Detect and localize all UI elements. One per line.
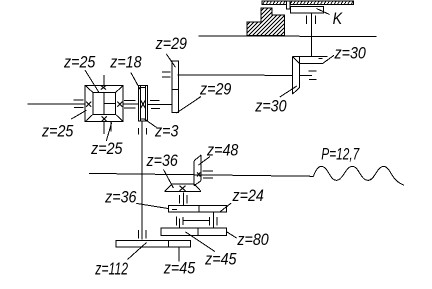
svg-text:z=36: z=36 [146,152,179,170]
wire shaft I left segment [28,103,85,105]
bearing on K shaft [307,16,316,25]
leader z=45 right [185,232,215,252]
frame hatched top strip [262,1,354,4]
leader z=25 bottom [106,123,111,141]
svg-text:z=112: z=112 [95,259,129,279]
leader z=18 [131,73,140,90]
bearing on shaft C upper [139,128,147,135]
bearing on shaft I right of worm [150,100,160,108]
leader z=30 upper (extends from gear slant) [323,55,334,63]
x-mark bottom gear z=25 [102,116,107,121]
wire shaft B between bars [212,213,214,228]
svg-text:z=3: z=3 [154,123,179,141]
leader z=29 lower [177,97,202,114]
x-mark on z=36 bevel [180,186,186,191]
wire vertical stubs below bevel box [104,122,111,135]
leader z=36 upper [164,170,174,189]
bearing on shaft A upper [180,195,188,203]
leader K [317,9,330,15]
bearing on shaft C lower [139,230,147,239]
coupling bracket between gear blocks [183,217,209,226]
bearing on shaft A mid [175,217,177,226]
leader z=80 [227,232,237,238]
frame datum line [199,35,377,38]
gear z=29 lower [172,89,179,112]
leader z=29 upper [166,54,175,68]
leader z=112 [128,243,147,260]
x-mark worm mesh [140,100,145,109]
bevel gear z=48 vertical (on shaft IV) [194,155,201,186]
plate K [291,7,324,13]
wire vertical shaft to K [310,13,312,57]
gear z=29 upper [172,61,179,89]
leader z=3 [145,119,157,128]
wire shaft I segment worm to gear [148,103,172,105]
svg-text:z=24: z=24 [232,187,265,205]
spring wave P=12,7 [313,166,404,185]
bearing on shaft I right of bevel box [124,100,136,108]
bevel gear z=36 horizontal (on vertical shaft A) [165,184,201,191]
svg-text:z=25: z=25 [90,140,123,158]
svg-text:z=29: z=29 [155,35,188,53]
bevel gear box z=25 x4 (differential housing) [85,86,123,122]
gear block bar z=36 / z=24 [169,205,227,212]
x-mark on z=48 [197,172,200,176]
svg-text:z=45: z=45 [204,251,237,269]
x-mark right gear z=25 [117,102,122,107]
gear bar z=112 / z=45 [116,240,191,247]
bearing on shaft I left of bevel box [73,100,83,108]
wire shaft A stub below z=45 [178,247,180,261]
wire shaft A to lower bar [178,219,180,228]
svg-text:z=29: z=29 [199,80,232,98]
bearing on shaft IV right of z=48 [202,171,213,178]
svg-text:z=45: z=45 [163,259,196,277]
leader z=36 lower [136,203,177,209]
frame hatched step block [247,8,285,36]
wire shaft A below bevel z=36 [182,193,184,206]
svg-text:z=25: z=25 [63,53,96,71]
wire shaft I middle segment [123,103,138,105]
svg-text:z=25: z=25 [41,123,74,141]
leader z=48 [199,157,211,166]
svg-text:z=48: z=48 [206,142,239,160]
svg-text:P=12,7: P=12,7 [321,146,360,164]
svg-text:z=18: z=18 [109,54,142,72]
svg-text:z=36: z=36 [104,189,137,207]
gear block bar z=45 / z=80 [161,228,227,236]
wire vertical shaft C from worm down to z=112 [141,121,143,239]
leader z=30 lower [280,86,297,97]
bearing on shaft II right end [308,71,316,79]
leader z=24 [220,203,231,212]
wire shaft II [178,74,293,77]
pin under strip [286,2,290,10]
svg-text:z=30: z=30 [334,44,367,62]
leader z=25 left [71,110,86,119]
bevel gear z=30 horizontal (on vertical shaft K) [292,56,327,63]
wire shaft IV leadscrew [89,173,314,176]
svg-text:z=80: z=80 [236,231,269,249]
bevel gear z=30 vertical (on shaft II) [292,56,299,94]
x-mark top gear z=25 [101,85,106,89]
bearing on shaft B [216,217,218,226]
wire shaft II stub right of bevel z=30 [299,74,312,76]
svg-text:K: K [333,10,344,28]
x-mark left gear z=25 [86,102,91,107]
wire vertical stub above bevel box [103,75,105,85]
bearing on shaft II left of gear [162,72,171,77]
svg-text:z=30: z=30 [254,98,287,116]
leader z=25 top [85,70,99,92]
worm z=3 / wheel z=18 spool [138,85,148,121]
